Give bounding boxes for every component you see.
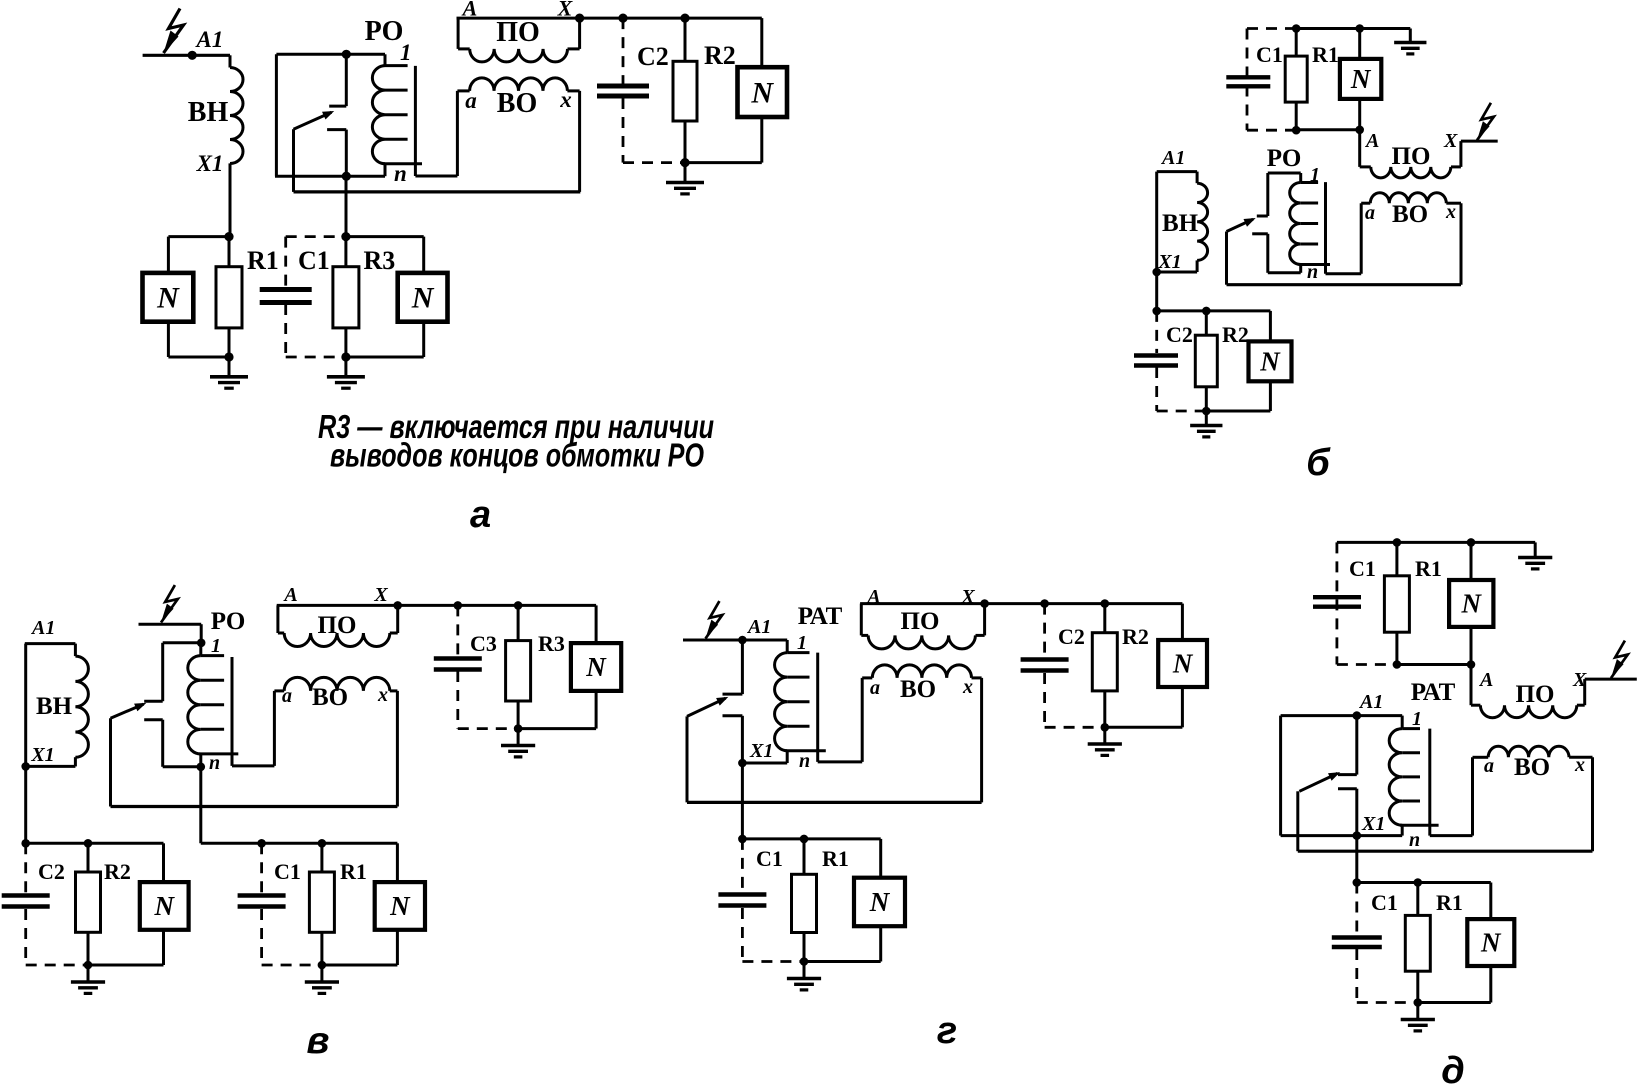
RO tap tick — [385, 138, 408, 141]
svg-text:a: a — [465, 88, 477, 113]
wire RO box left — [275, 54, 278, 176]
wire rail — [346, 235, 424, 238]
wire blade down (g) — [686, 716, 689, 802]
wire to ground — [87, 965, 90, 981]
dashed wire C1 bottom (d) — [1357, 1001, 1418, 1004]
resistor R2 (b) — [1195, 335, 1217, 387]
wire VO x down (b) — [1460, 203, 1463, 285]
wire — [976, 634, 985, 637]
RO tap tick (v) — [201, 703, 224, 706]
wire blade down — [292, 129, 295, 192]
RO tap tick (v) — [201, 728, 224, 731]
switch contact upper (g) — [723, 693, 743, 696]
junction R1 (v) — [318, 839, 327, 848]
wire — [1196, 172, 1199, 184]
resistor R3 (v) — [506, 641, 531, 701]
svg-text:X1: X1 — [196, 151, 224, 176]
dashed wire — [1355, 949, 1358, 1003]
wire blade down (d) — [1296, 791, 1299, 851]
wire RO box bottom — [275, 175, 385, 178]
svg-text:N: N — [411, 282, 435, 315]
wire — [322, 964, 398, 967]
wire blade to VO x (g) — [687, 801, 982, 804]
svg-text:РО: РО — [365, 16, 404, 47]
svg-text:1: 1 — [797, 632, 807, 654]
winding BH (coil) — [230, 68, 243, 164]
wire to X1 (g) — [741, 716, 744, 763]
wire to ground — [1534, 542, 1537, 556]
wire VO x down (v) — [396, 691, 399, 807]
wire line input — [143, 54, 230, 57]
junction C1 (v) — [257, 839, 266, 848]
junction R1 bottom (d) — [1393, 660, 1402, 669]
wire to VO a (d) — [1430, 834, 1473, 837]
wire to ground — [1416, 1003, 1419, 1019]
svg-text:ВН: ВН — [36, 693, 73, 720]
wire to ground — [344, 357, 347, 375]
wire to ground — [803, 962, 806, 978]
wire VO a down — [456, 91, 459, 176]
dashed wire C1 bottom (g) — [742, 960, 804, 963]
wire — [1418, 1001, 1491, 1004]
svg-text:ВО: ВО — [497, 88, 537, 119]
wire to ground — [1103, 727, 1106, 742]
RAT tap tick (g) — [787, 676, 809, 679]
svg-text:X: X — [1443, 130, 1458, 152]
wire — [1157, 271, 1197, 274]
resistor R2 (g) — [1092, 633, 1117, 691]
switch contact lower (d) — [1338, 787, 1357, 790]
svg-text:x: x — [559, 87, 572, 112]
wire RO riser (v) — [231, 657, 234, 766]
wire RO bottom — [1268, 271, 1301, 274]
capacitor C2 (g) — [1021, 657, 1069, 661]
junction C1 (d bottom) — [1353, 878, 1362, 887]
tap switch blade — [687, 698, 726, 716]
wire — [87, 932, 90, 965]
dashed wire C3 bottom (v) — [458, 727, 518, 730]
wire — [1295, 102, 1298, 130]
wire — [422, 237, 425, 273]
svg-text:N: N — [869, 887, 891, 917]
wire — [685, 161, 762, 164]
wire — [1470, 627, 1473, 665]
svg-text:N: N — [750, 76, 774, 109]
svg-text:C2: C2 — [38, 859, 65, 884]
svg-text:РАТ: РАТ — [798, 603, 843, 630]
wire — [278, 632, 284, 635]
svg-text:C3: C3 — [470, 631, 497, 656]
svg-text:R1: R1 — [822, 846, 849, 871]
wire rail C1 (v) — [201, 842, 398, 845]
wire X1 down (g) — [741, 763, 744, 839]
wire — [457, 89, 469, 92]
ground (right) — [666, 181, 704, 185]
wire — [344, 328, 347, 357]
svg-text:A: A — [282, 584, 297, 606]
svg-text:C1: C1 — [1371, 890, 1398, 915]
svg-text:ВО: ВО — [900, 676, 936, 703]
wire — [786, 751, 789, 763]
svg-text:R2: R2 — [704, 41, 736, 70]
node A1 (d) — [1353, 711, 1362, 720]
svg-text:ВН: ВН — [188, 97, 229, 128]
wire — [1397, 663, 1471, 666]
svg-text:N: N — [389, 891, 411, 921]
svg-text:X: X — [1572, 669, 1587, 691]
wire VO a down (v) — [273, 691, 276, 766]
winding VO coil (v) — [284, 677, 390, 691]
svg-text:R1: R1 — [1312, 42, 1339, 67]
wire — [396, 605, 399, 633]
junction C1 (g) — [738, 835, 747, 844]
resistor R3 — [333, 267, 359, 328]
ground (b) — [1190, 424, 1222, 428]
svg-text:a: a — [870, 677, 880, 699]
wire — [199, 754, 202, 767]
RO tap tick — [385, 89, 408, 92]
svg-text:C1: C1 — [756, 846, 783, 871]
winding VO coil (b) — [1370, 193, 1446, 204]
junction N top — [1355, 24, 1364, 33]
junction R2 bottom (v) — [84, 961, 93, 970]
junction R1 bottom — [224, 352, 233, 361]
wire — [396, 843, 399, 882]
svg-text:a: a — [1484, 755, 1494, 777]
svg-text:1: 1 — [400, 40, 412, 65]
wire to VO a — [415, 175, 457, 178]
dashed wire — [456, 605, 459, 656]
RAT tap tick (g) — [787, 651, 809, 654]
wire — [1299, 265, 1302, 273]
wire — [684, 121, 687, 163]
wire A down — [1358, 130, 1361, 167]
wire rail — [580, 17, 762, 20]
wire blade to VO x (b) — [1227, 283, 1462, 286]
wire — [1206, 410, 1270, 413]
dashed wire C2 bottom (v) — [26, 964, 88, 967]
wire VO x down (g) — [980, 678, 983, 803]
wire — [1395, 542, 1398, 575]
wire — [1299, 173, 1302, 183]
wire A down (d) — [1470, 665, 1473, 706]
junction R1 (g) — [800, 835, 809, 844]
junction R2 bottom — [680, 158, 689, 167]
junction RO top — [342, 50, 351, 59]
svg-text:A1: A1 — [30, 617, 55, 639]
svg-text:б: б — [1306, 442, 1331, 484]
junction C3 (v) — [454, 601, 463, 610]
wire RO top — [1268, 172, 1301, 175]
wire — [1196, 260, 1199, 272]
dashed wire C2 bottom — [623, 161, 685, 164]
junction RO bottom — [342, 172, 351, 181]
wire — [74, 644, 77, 657]
wire — [1569, 756, 1592, 759]
wire — [1181, 687, 1184, 727]
wire — [1295, 29, 1298, 57]
junction R3 (v) — [514, 601, 523, 610]
junction R2 (v) — [84, 839, 93, 848]
svg-text:X1: X1 — [1157, 251, 1181, 273]
svg-text:R2: R2 — [104, 859, 131, 884]
wire box top (d) — [1281, 714, 1357, 717]
switch contact upper (d) — [1338, 773, 1357, 776]
RO tap tick (v) — [201, 654, 224, 657]
wire — [1401, 716, 1404, 729]
svg-text:ВО: ВО — [312, 684, 348, 711]
load N (v right) — [571, 643, 621, 691]
svg-text:C1: C1 — [1349, 556, 1376, 581]
wire switch lower (d) — [1355, 789, 1358, 836]
wire — [595, 691, 598, 729]
wire — [384, 54, 387, 65]
load N (v left) — [140, 882, 189, 930]
dashed wire C1 left (d) — [1336, 542, 1339, 664]
wire — [162, 843, 165, 882]
wire RO left upper — [1266, 173, 1269, 216]
wire — [1103, 604, 1106, 633]
node A (d) — [1467, 660, 1476, 669]
winding PO coil (d) — [1480, 705, 1576, 718]
wire bottom rail — [1296, 128, 1360, 131]
wire — [972, 676, 982, 679]
RO tap tick n (b) — [1299, 263, 1330, 266]
node X1 (d) — [1353, 831, 1362, 840]
wire blade to VO x (d) — [1298, 850, 1593, 853]
dashed wire — [456, 671, 459, 729]
wire switch lower — [345, 130, 348, 177]
node X junction (g) — [980, 599, 989, 608]
dashed wire — [1043, 604, 1046, 658]
RO tap tick n (v) — [199, 752, 238, 755]
svg-text:A: A — [461, 0, 478, 21]
svg-text:ПО: ПО — [1392, 143, 1431, 170]
svg-text:a: a — [282, 685, 292, 707]
wire — [879, 839, 882, 878]
capacitor C2 — [597, 84, 649, 89]
dashed wire C1 bottom — [286, 356, 346, 359]
lightning arrow — [161, 585, 178, 622]
switch contact upper (v) — [144, 700, 163, 703]
dashed wire C1 left — [1246, 29, 1249, 131]
wire RO left lower — [1266, 234, 1269, 273]
ground (d top) — [1518, 556, 1552, 560]
ground (under R3) — [327, 375, 365, 379]
wire — [578, 18, 581, 49]
wire left (v) — [24, 644, 27, 844]
svg-text:R3: R3 — [538, 631, 565, 656]
svg-text:1: 1 — [211, 635, 221, 657]
junction N top (d) — [1467, 538, 1476, 547]
wire — [1401, 825, 1404, 835]
junction R1 bottom (g) — [800, 957, 809, 966]
wire — [1416, 883, 1419, 916]
wire to ground — [1409, 29, 1412, 42]
winding PO coil (g) — [868, 635, 975, 649]
winding RO coil (v) — [188, 656, 201, 754]
wire — [228, 328, 231, 357]
svg-text:ВН: ВН — [1162, 210, 1199, 237]
wire to X (d) — [1585, 678, 1637, 681]
wire — [1205, 311, 1208, 335]
tap switch blade — [294, 112, 332, 129]
wire — [88, 964, 164, 967]
svg-text:ПО: ПО — [318, 612, 357, 639]
dashed wire — [622, 18, 625, 84]
load N (d top) — [1449, 580, 1493, 627]
svg-text:ВО: ВО — [1514, 754, 1550, 781]
wire switch upper — [345, 54, 348, 106]
svg-text:N: N — [1461, 589, 1483, 619]
svg-text:X: X — [960, 586, 975, 608]
svg-text:X: X — [557, 0, 574, 21]
load N (g right) — [1158, 640, 1207, 687]
junction R1 (d bottom) — [1414, 878, 1423, 887]
wire — [862, 676, 872, 679]
dashed wire — [284, 237, 287, 288]
winding VO coil (g) — [872, 665, 971, 678]
wire — [1395, 632, 1398, 664]
wire VO a down (b) — [1360, 203, 1363, 274]
wire — [74, 757, 77, 766]
switch contact upper (b) — [1257, 215, 1268, 218]
svg-text:x: x — [1445, 201, 1456, 223]
svg-text:1: 1 — [1412, 708, 1422, 730]
capacitor C1 (v) — [238, 893, 286, 897]
dashed wire — [741, 908, 744, 962]
load N (v mid) — [375, 882, 425, 930]
dashed wire — [622, 98, 625, 163]
wire — [320, 932, 323, 965]
svg-text:R1: R1 — [340, 859, 367, 884]
lightning arrow — [706, 601, 723, 638]
wire RO left lower (v) — [161, 720, 164, 767]
wire — [1473, 756, 1489, 759]
junction R2 top (b) — [1202, 307, 1211, 316]
junction R2 — [680, 14, 689, 23]
wire — [804, 960, 881, 963]
svg-text:X: X — [373, 584, 388, 606]
wire rail (v) — [398, 604, 596, 607]
junction R3 bottom — [341, 352, 350, 361]
svg-text:R2: R2 — [1122, 624, 1149, 649]
wire rail (d) — [1357, 881, 1491, 884]
wire RO terminal riser — [414, 66, 417, 176]
dashed wire — [24, 909, 27, 965]
wire RO top (v) — [163, 641, 202, 644]
ground (d bottom) — [1401, 1018, 1435, 1022]
wire — [390, 632, 398, 635]
svg-text:x: x — [962, 676, 973, 698]
svg-text:а: а — [470, 494, 491, 536]
svg-text:R1: R1 — [247, 246, 279, 275]
load N (b bottom) — [1249, 341, 1292, 381]
tap switch blade — [1227, 219, 1254, 231]
svg-text:ПО: ПО — [1516, 681, 1555, 708]
wire VO a down (g) — [861, 678, 864, 762]
dashed wire C1 bottom (v) — [262, 964, 322, 967]
svg-text:C1: C1 — [274, 859, 301, 884]
wire X1 down — [229, 163, 232, 236]
wire — [167, 322, 170, 357]
svg-text:N: N — [1350, 64, 1372, 94]
wire — [684, 18, 687, 61]
svg-text:N: N — [1480, 928, 1502, 958]
svg-text:X1: X1 — [30, 744, 54, 766]
wire X1 rail (d) — [1357, 834, 1402, 837]
wire — [200, 624, 203, 643]
wire to VO a (b) — [1326, 272, 1362, 275]
junction R2 bottom (g) — [1101, 723, 1110, 732]
switch fixed contact upper — [329, 105, 346, 108]
resistor R1 (d top) — [1384, 576, 1409, 632]
wire X1 down (d) — [1355, 836, 1358, 883]
svg-text:C2: C2 — [637, 42, 669, 71]
node X1 (g) — [738, 759, 747, 768]
svg-text:n: n — [1409, 829, 1420, 851]
svg-text:n: n — [209, 752, 220, 774]
wire blade down (v) — [109, 718, 112, 806]
wire PO top — [457, 17, 580, 20]
node A (b) — [1355, 126, 1364, 135]
wire — [1583, 679, 1586, 705]
switch contact lower (g) — [723, 714, 743, 717]
dashed wire C2 bottom (b) — [1157, 410, 1207, 413]
svg-text:ПО: ПО — [496, 17, 540, 48]
svg-text:A1: A1 — [195, 27, 224, 52]
wire — [1361, 202, 1370, 205]
wire to ground — [228, 357, 231, 375]
wire RO box top — [276, 53, 385, 56]
junction R1 top (d) — [1393, 538, 1402, 547]
wire — [1470, 542, 1473, 580]
ground (v right) — [501, 744, 535, 748]
RAT tap tick (d) — [1402, 775, 1420, 778]
dashed wire — [260, 909, 263, 965]
svg-text:ПО: ПО — [901, 608, 940, 635]
lightning arrow — [1611, 641, 1628, 678]
wire — [1269, 381, 1272, 411]
resistor R2 — [673, 61, 697, 121]
dashed wire C1 top — [286, 235, 346, 238]
wire box bottom (d) — [1281, 834, 1357, 837]
svg-text:n: n — [394, 161, 407, 186]
wire — [457, 18, 460, 49]
winding PO (b) — [1371, 167, 1451, 178]
dashed wire C2 bottom (g) — [1045, 726, 1105, 729]
wire — [1577, 704, 1585, 707]
svg-text:x: x — [1574, 754, 1585, 776]
wire rail (b) — [1157, 309, 1271, 312]
winding RAT coil (d) — [1389, 729, 1402, 826]
ground (v mid) — [305, 980, 339, 984]
RAT tap tick n (g) — [786, 749, 826, 752]
wire A1 right (d) — [1357, 714, 1402, 717]
svg-text:РО: РО — [1267, 145, 1302, 172]
wire — [1358, 29, 1361, 59]
wire VO x down — [578, 91, 581, 192]
svg-text:X1: X1 — [1361, 813, 1385, 835]
wire — [1103, 691, 1106, 727]
wire — [803, 933, 806, 962]
dashed wire — [1355, 883, 1358, 936]
resistor R2 (v) — [76, 872, 101, 932]
dashed wire C1 top — [1247, 27, 1296, 30]
wire to ground — [684, 163, 687, 181]
node A1 — [188, 51, 197, 60]
wire — [320, 843, 323, 872]
